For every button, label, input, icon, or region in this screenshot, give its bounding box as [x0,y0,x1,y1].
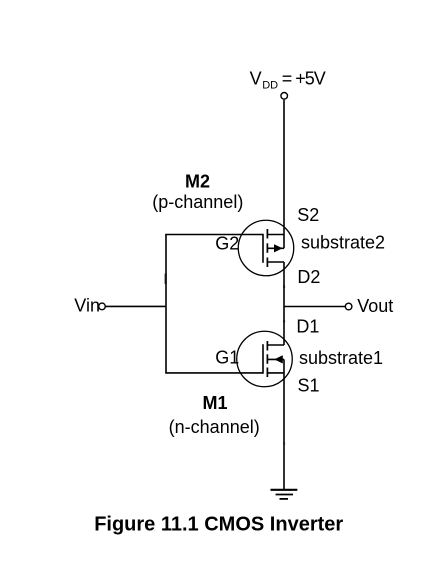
svg-text:(p-channel): (p-channel) [152,192,243,212]
svg-text:V: V [250,68,262,88]
VDD terminal [281,93,288,100]
wire joint dot [283,320,285,322]
wire M1 source lead S1 [267,372,284,374]
wire M2 drain lead D2 [267,261,284,263]
wire M1 gate lead [165,372,263,374]
wire M2 source lead S2 [267,234,284,236]
wire joint dot [283,442,285,444]
svg-text:M1: M1 [202,393,227,413]
ground [271,489,298,491]
svg-text:substrate2: substrate2 [301,233,385,253]
svg-text:G2: G2 [215,234,239,254]
wire M1 source/substrate to ground [283,359,285,489]
wire Vout stub [284,306,345,308]
svg-text:Vin: Vin [74,296,100,316]
Vout terminal [345,303,352,310]
svg-text:G1: G1 [215,348,239,368]
transistor M1 channel (dashed) [266,341,268,351]
svg-text:S2: S2 [297,205,319,225]
svg-text:Figure 11.1 CMOS Inverter: Figure 11.1 CMOS Inverter [94,514,343,536]
wire joint dot [283,286,285,288]
transistor M1 substrate arrow (points left) [274,355,283,363]
wire joint segment [165,274,167,285]
wire input vertical (gate bus) [165,235,167,373]
svg-text:D2: D2 [297,267,320,287]
Vin terminal [99,303,106,310]
wire M2 substrate lead [267,247,284,249]
svg-text:Vout: Vout [357,296,393,316]
transistor M1 body circle [237,331,293,387]
wire M1 drain lead D1 [267,344,284,346]
svg-text:DD: DD [262,80,278,92]
wire M2 drain to M1 drain (output rail) [283,262,285,345]
transistor M2 channel (dashed) [266,229,268,239]
transistor M2 body circle [238,220,294,276]
svg-text:S1: S1 [298,376,320,396]
transistor M1 gate bar [262,344,264,374]
transistor M2 gate bar [262,234,264,263]
svg-text:= +5V: = +5V [282,68,326,88]
wire M2 gate lead [165,234,263,236]
svg-text:D1: D1 [296,316,319,336]
svg-text:substrate1: substrate1 [299,348,383,368]
svg-text:(n-channel): (n-channel) [169,417,260,437]
wire VDD rail to M2 source/substrate [283,100,285,249]
wire Vin stub [106,305,166,307]
svg-text:M2: M2 [185,172,210,192]
transistor M2 substrate arrow (points right) [274,244,283,252]
wire M1 substrate lead [267,358,284,360]
